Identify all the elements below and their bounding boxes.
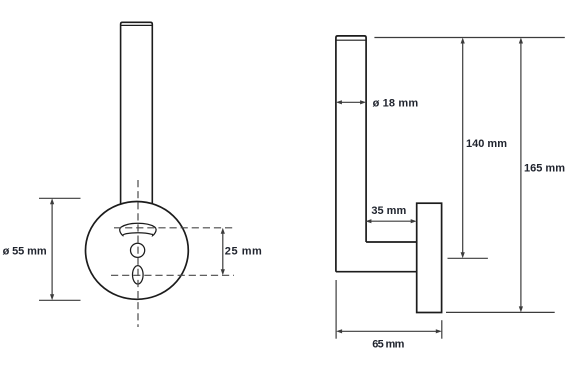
tube side view (336, 36, 366, 272)
keyhole oval (133, 266, 144, 284)
horizontal centerline slot (114, 227, 234, 229)
tube front view (121, 22, 153, 206)
screw hole circle (131, 243, 145, 257)
wall plate circle front view (85, 202, 188, 300)
svg-text:165 mm: 165 mm (524, 162, 565, 174)
svg-text:ø 18 mm: ø 18 mm (373, 98, 419, 110)
svg-text:25 mm: 25 mm (225, 246, 262, 258)
svg-text:ø 55 mm: ø 55 mm (3, 245, 47, 257)
vertical centerline (137, 180, 139, 327)
arm side view (336, 242, 417, 272)
dimension 35 mm (365, 219, 416, 223)
svg-text:65 mm: 65 mm (372, 339, 404, 351)
svg-text:140 mm: 140 mm (466, 138, 507, 150)
svg-text:35 mm: 35 mm (371, 205, 406, 217)
wall plate side view (417, 203, 442, 312)
dimension ø 55 mm (39, 198, 81, 300)
mounting slot (120, 223, 156, 235)
dimension ø 18 mm (336, 100, 366, 104)
dimension 165 mm (374, 38, 564, 313)
dimension 25 mm (221, 228, 225, 276)
horizontal centerline oval (111, 274, 234, 276)
dimension 65 mm (336, 280, 442, 339)
dimension 140 mm (448, 38, 488, 259)
